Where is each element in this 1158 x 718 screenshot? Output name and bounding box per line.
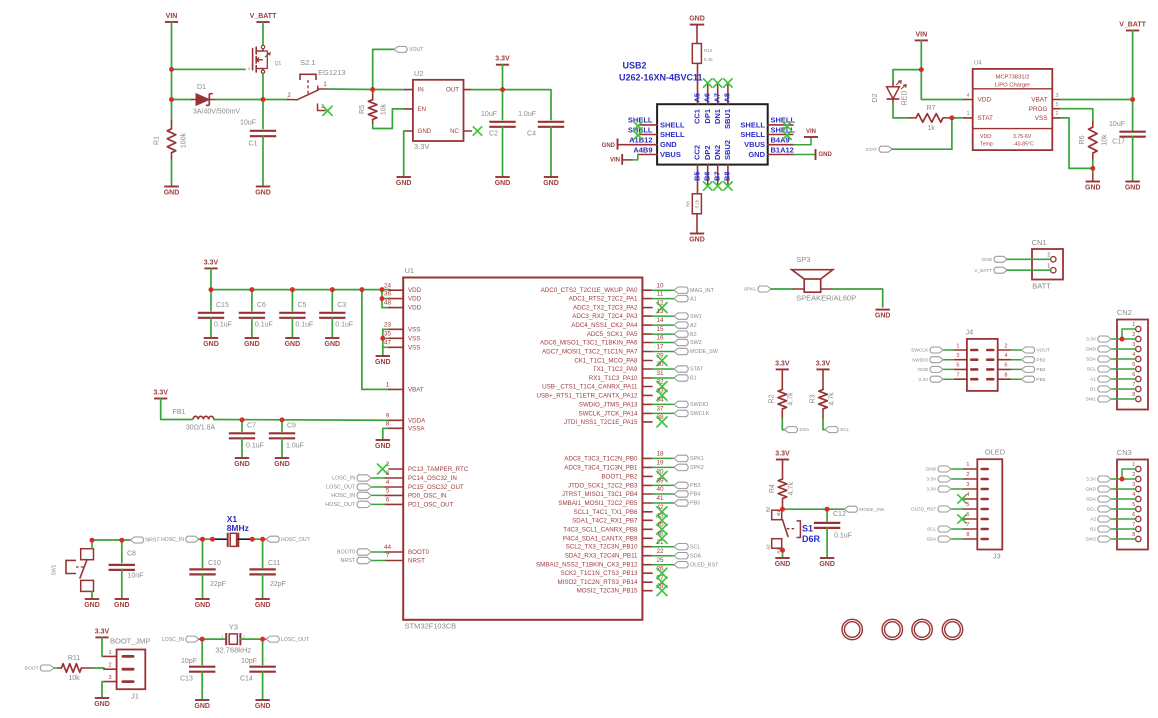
- svg-text:C4: C4: [527, 131, 536, 138]
- svg-text:VIN: VIN: [806, 129, 816, 135]
- net flag OLED_RST: [911, 506, 951, 513]
- power symbol VIN: [915, 31, 928, 40]
- svg-text:ADC9_T3C4_T1C3N_PB1: ADC9_T3C4_T1C3N_PB1: [564, 464, 638, 471]
- svg-text:VIN: VIN: [610, 157, 620, 163]
- wire: [262, 639, 264, 665]
- J3 pin 1: [963, 462, 989, 470]
- svg-text:PROG: PROG: [1029, 106, 1048, 113]
- svg-text:HOSC_IN: HOSC_IN: [331, 493, 355, 499]
- U1 right pin 31 RX1_T1C3_PA10: [589, 370, 664, 382]
- svg-text:SCL: SCL: [840, 427, 850, 433]
- svg-text:PC13_TAMPER_RTC: PC13_TAMPER_RTC: [408, 466, 469, 473]
- svg-text:A2: A2: [1090, 517, 1096, 523]
- wire: [821, 288, 832, 290]
- ground: [234, 458, 250, 468]
- USB2 bottom pin B8 SBU2: [723, 140, 732, 186]
- svg-text:STAT: STAT: [866, 147, 878, 153]
- svg-text:V_BATT: V_BATT: [1119, 22, 1146, 29]
- svg-text:GND: GND: [234, 461, 250, 468]
- U1 left pin 6 PD1_OSC_OUT: [385, 496, 454, 508]
- wire: [210, 290, 212, 311]
- svg-text:SWCLK: SWCLK: [911, 348, 929, 354]
- ground (side): [602, 138, 618, 149]
- svg-text:3: 3: [966, 482, 969, 488]
- capacitor C5: [279, 302, 313, 329]
- svg-text:1: 1: [1132, 322, 1135, 328]
- U1 right pin 40 JTRST_MISO1_T3C1_PB4: [562, 486, 664, 498]
- svg-text:SWDIO_JTMS_PA13: SWDIO_JTMS_PA13: [579, 401, 638, 408]
- svg-text:USB+_RTS1_T1ETR_CANTX_PA12: USB+_RTS1_T1ETR_CANTX_PA12: [536, 392, 638, 399]
- wire: [102, 682, 104, 698]
- net flag SPK1: [744, 286, 771, 293]
- wire: [371, 503, 384, 505]
- wire: [1011, 359, 1021, 361]
- CN3 pin 4: [1132, 492, 1141, 502]
- net flag SW1: [674, 313, 702, 320]
- wire: [199, 638, 225, 640]
- svg-text:CN2: CN2: [1117, 308, 1132, 317]
- wire: [794, 288, 805, 290]
- svg-text:VBUS: VBUS: [660, 150, 681, 159]
- wire VSS: [1061, 118, 1093, 168]
- svg-text:VDDA: VDDA: [408, 417, 426, 424]
- svg-text:GND: GND: [255, 189, 271, 196]
- node S2 junction: [370, 87, 375, 92]
- svg-text:VSS: VSS: [408, 344, 420, 351]
- wire: [696, 214, 698, 234]
- svg-text:SHELL: SHELL: [660, 120, 685, 129]
- CN3 pin 2: [1132, 472, 1141, 482]
- wire: [794, 154, 815, 156]
- ground: [375, 440, 391, 450]
- resistor R8: [686, 194, 702, 214]
- svg-text:ADC3_RX2_T2C4_PA3: ADC3_RX2_T2C4_PA3: [572, 313, 638, 320]
- wire: [1111, 488, 1135, 490]
- capacitor C9: [269, 422, 304, 449]
- svg-text:CK1_T1C1_MCO_PA8: CK1_T1C1_MCO_PA8: [574, 358, 638, 365]
- net flag A1: [1090, 376, 1111, 383]
- no-connect: [714, 182, 722, 190]
- svg-text:1.0uF: 1.0uF: [518, 111, 536, 118]
- power VIN (side): [610, 154, 632, 165]
- node: [1120, 477, 1125, 482]
- header J4: [965, 327, 997, 391]
- power symbol V_BATT: [250, 13, 277, 22]
- capacitor C12: [814, 511, 852, 540]
- svg-text:GND: GND: [819, 152, 833, 158]
- no-connect: [704, 79, 712, 87]
- speaker SP3: [792, 255, 857, 303]
- net flag 3.3V: [918, 376, 943, 383]
- capacitor C8: [109, 550, 144, 579]
- svg-text:U1: U1: [405, 266, 415, 275]
- ground: [819, 558, 835, 568]
- svg-text:0.1uF: 0.1uF: [246, 442, 264, 449]
- svg-text:OLED: OLED: [985, 448, 1006, 457]
- USB2 right pin B1A12 GND: [748, 145, 794, 159]
- U1 right pin 32 USB-_CTS1_T1C4_CANRX_PA11: [542, 379, 664, 391]
- wire: [1111, 528, 1135, 530]
- svg-text:0.1uF: 0.1uF: [295, 321, 313, 328]
- net flag SCL: [1087, 366, 1111, 373]
- ground (side): [816, 149, 833, 160]
- svg-text:J3: J3: [993, 551, 1001, 560]
- wire: [652, 484, 674, 486]
- net flag SDA: [1086, 496, 1111, 503]
- no-connect shell: [634, 122, 642, 130]
- wire: [199, 538, 212, 540]
- resistor R11: [58, 655, 92, 682]
- net flag A2: [674, 322, 697, 329]
- U1 left pin 3 PC14_OSC32_IN: [385, 470, 457, 482]
- svg-text:D6R: D6R: [802, 534, 821, 544]
- wire: [371, 494, 384, 496]
- net flag BOOT: [25, 665, 54, 672]
- wire: [1122, 329, 1135, 339]
- svg-text:PB5: PB5: [1036, 377, 1045, 383]
- wire: [1007, 258, 1050, 260]
- svg-text:ADC1_RTS2_T2C2_PA1: ADC1_RTS2_T2C2_PA1: [569, 296, 638, 303]
- svg-text:DN1: DN1: [713, 109, 722, 124]
- capacitor C17: [1109, 121, 1146, 146]
- svg-text:4: 4: [1132, 352, 1135, 358]
- svg-text:GND: GND: [875, 312, 891, 319]
- header J1 BOOT_JMP: [104, 636, 151, 700]
- wire: [331, 290, 333, 311]
- CN2 pin 3: [1132, 342, 1141, 352]
- svg-text:10pF: 10pF: [241, 658, 257, 665]
- capacitor C13: [180, 658, 215, 682]
- U1 left pin 7 NRST: [385, 553, 426, 565]
- svg-text:GND: GND: [375, 359, 391, 366]
- wire: [262, 136, 264, 186]
- capacitor C7: [229, 422, 264, 449]
- svg-text:47: 47: [384, 339, 392, 346]
- wire: [54, 667, 58, 669]
- svg-text:15: 15: [656, 326, 664, 333]
- svg-text:30: 30: [656, 361, 664, 368]
- wire: [652, 412, 674, 414]
- svg-text:GND: GND: [819, 561, 835, 568]
- wire: [383, 337, 390, 339]
- CN3 pin 6: [1132, 512, 1141, 522]
- svg-text:VOUT: VOUT: [409, 47, 424, 53]
- U1 left pin 24 VDD: [384, 282, 422, 294]
- wire: [251, 290, 253, 311]
- wire: [652, 368, 674, 370]
- svg-text:VSSA: VSSA: [408, 425, 425, 432]
- USB2 bottom pin B5 CC2: [692, 145, 701, 186]
- wire: [262, 539, 264, 567]
- net flag MODE_SW: [674, 348, 719, 355]
- svg-text:SCL1_T4C1_TX1_PB6: SCL1_T4C1_TX1_PB6: [574, 509, 639, 516]
- node 3.3V junction: [500, 87, 505, 92]
- ground: [244, 338, 260, 348]
- wire: [201, 672, 203, 700]
- svg-text:R4: R4: [769, 484, 776, 493]
- resistor R2 4.7k: [769, 369, 795, 419]
- wire: [241, 438, 243, 457]
- connector CN2 body: [1117, 308, 1148, 410]
- svg-text:3.3V: 3.3V: [153, 390, 168, 397]
- svg-text:LOSC_IN: LOSC_IN: [162, 637, 184, 643]
- no-connect: [657, 417, 667, 427]
- ground: [203, 338, 219, 348]
- ground: [84, 599, 100, 609]
- capacitor C1: [240, 119, 276, 147]
- svg-text:SWCLK_JTCK_PA14: SWCLK_JTCK_PA14: [578, 410, 638, 417]
- node VBAT junction: [1130, 97, 1135, 102]
- wire: [1011, 368, 1021, 370]
- svg-text:22pF: 22pF: [210, 581, 226, 588]
- svg-text:MISO2_T1C2N_RTS3_PB14: MISO2_T1C2N_RTS3_PB14: [557, 579, 638, 586]
- node: [380, 336, 385, 341]
- svg-text:JTDI_NSS1_T2C1E_PA15: JTDI_NSS1_T2C1E_PA15: [564, 419, 638, 426]
- wire: [893, 104, 910, 118]
- no-connect: [958, 495, 966, 503]
- net flag SCL: [674, 544, 701, 551]
- wire 3.3V bus: [211, 289, 390, 291]
- resistor R13: [692, 44, 713, 64]
- svg-text:Q1: Q1: [275, 61, 282, 67]
- USB2 right pin SHELL SHELL: [740, 116, 795, 130]
- U1 left pin 35 VSS: [384, 330, 420, 342]
- svg-text:10pF: 10pF: [181, 658, 197, 665]
- svg-text:A7: A7: [712, 93, 721, 103]
- svg-text:LOSC_OUT: LOSC_OUT: [281, 637, 310, 643]
- wire: [281, 438, 283, 457]
- wire: [1111, 378, 1135, 380]
- diode D1: [192, 84, 241, 116]
- svg-text:GND: GND: [114, 602, 130, 609]
- label U262-16XN-4BVC11: [619, 73, 703, 83]
- svg-text:SCL: SCL: [927, 527, 937, 533]
- wire: [652, 457, 674, 459]
- svg-text:A2: A2: [766, 544, 771, 550]
- svg-text:B1: B1: [1090, 387, 1096, 393]
- power symbol 3.3V: [775, 451, 790, 460]
- power symbol 3.3V: [495, 56, 510, 65]
- svg-text:GND: GND: [1085, 184, 1101, 191]
- LED D2: [872, 81, 909, 106]
- svg-text:1: 1: [1132, 462, 1135, 468]
- U1 left pin 4 PC15_OSC32_OUT: [385, 479, 464, 491]
- net flag HOSC_IN: [331, 492, 371, 499]
- wire: [1011, 378, 1021, 380]
- no-connect: [657, 390, 667, 400]
- svg-text:PB4: PB4: [1036, 367, 1045, 373]
- svg-text:1k: 1k: [927, 125, 935, 132]
- USB2 right pin SHELL SHELL: [740, 125, 795, 139]
- svg-text:5: 5: [1132, 502, 1135, 508]
- svg-text:GND: GND: [689, 237, 705, 244]
- svg-text:5: 5: [1055, 102, 1058, 108]
- ferrite bead FB1: [173, 409, 216, 431]
- svg-text:3.3V: 3.3V: [495, 56, 510, 63]
- svg-text:OLED_RST: OLED_RST: [911, 507, 936, 513]
- wire: [251, 318, 253, 338]
- net flag GND: [982, 256, 1008, 263]
- wire: [373, 49, 394, 89]
- net flag PB4: [1021, 366, 1045, 373]
- svg-text:C3: C3: [337, 302, 346, 309]
- wire: [1111, 478, 1135, 480]
- svg-text:4: 4: [967, 93, 970, 99]
- svg-text:4.7k: 4.7k: [828, 392, 835, 406]
- svg-text:BOOT: BOOT: [25, 666, 39, 672]
- svg-text:22pF: 22pF: [270, 581, 286, 588]
- U1 right pin 29 CK1_T1C1_MCO_PA8: [574, 353, 664, 365]
- ground: [875, 310, 891, 320]
- power symbol 3.3V: [95, 628, 110, 637]
- net flag NRST: [341, 557, 372, 564]
- svg-text:-40-85°C: -40-85°C: [1013, 142, 1034, 148]
- svg-text:3: 3: [1055, 93, 1058, 99]
- node STAT junction: [949, 115, 954, 120]
- svg-text:10uF: 10uF: [481, 111, 497, 118]
- U1 left pin 8 VSSA: [386, 420, 426, 432]
- net flag 3.3V: [1086, 336, 1111, 343]
- wire VBAT: [362, 290, 390, 390]
- J4 pins 5/6: [954, 363, 1011, 371]
- svg-text:DP1: DP1: [703, 109, 712, 124]
- svg-text:10: 10: [656, 282, 664, 289]
- svg-text:GND: GND: [274, 461, 290, 468]
- net flag SW2: [1086, 536, 1111, 543]
- wire: [921, 40, 964, 99]
- wire: [951, 478, 963, 480]
- svg-text:MAG_INT: MAG_INT: [690, 288, 715, 294]
- net flag 3.3V: [926, 486, 951, 493]
- node bus junction: [330, 287, 335, 292]
- net flag SDA: [784, 427, 810, 434]
- net flag SDA: [1086, 356, 1111, 363]
- no-connect: [704, 182, 712, 190]
- net flag B2: [1090, 526, 1111, 533]
- svg-text:VOUT: VOUT: [1036, 348, 1049, 354]
- wire: [652, 342, 674, 344]
- svg-text:R3: R3: [809, 394, 816, 403]
- CN2 pin 1: [1132, 322, 1141, 332]
- net flag LOSC_OUT: [266, 636, 310, 643]
- mounting hole: [842, 619, 862, 639]
- svg-text:GND: GND: [543, 180, 559, 187]
- svg-text:8: 8: [386, 420, 390, 427]
- U1 right pin 17 ADC7_MOSI1_T3C2_T1C1N_PA7: [542, 344, 664, 356]
- regulator U2: [405, 69, 472, 151]
- svg-text:IN: IN: [418, 87, 424, 94]
- wire: [1132, 31, 1134, 132]
- wire: [161, 399, 192, 420]
- svg-text:23: 23: [384, 321, 392, 328]
- svg-text:5.1k: 5.1k: [695, 199, 700, 208]
- svg-text:B1: B1: [776, 510, 781, 516]
- svg-text:EN: EN: [418, 106, 427, 113]
- svg-text:3.3V: 3.3V: [926, 487, 937, 493]
- svg-text:GND: GND: [602, 143, 616, 149]
- svg-text:SWDIO: SWDIO: [912, 357, 929, 363]
- node: [280, 417, 285, 422]
- svg-text:37: 37: [656, 405, 664, 412]
- svg-text:39: 39: [656, 477, 664, 484]
- U1 right pin 21 SCL2_TX3_T2C3N_PB10: [566, 539, 664, 551]
- ground: [255, 700, 271, 710]
- node Q1 source junction: [261, 97, 266, 102]
- wire: [171, 22, 173, 100]
- svg-text:3.3V: 3.3V: [775, 360, 790, 367]
- svg-text:2: 2: [108, 663, 111, 669]
- svg-text:STM32F103CB: STM32F103CB: [405, 621, 457, 630]
- wire: [1132, 137, 1134, 181]
- svg-text:P4C4_SDA1_CANTX_PB9: P4C4_SDA1_CANTX_PB9: [563, 535, 638, 542]
- ground: [94, 698, 110, 708]
- J3 pin 3: [963, 482, 989, 490]
- net flag PB5: [1021, 376, 1045, 383]
- wire: [327, 88, 373, 91]
- net flag LOSC_IN: [332, 475, 371, 482]
- CN3 pin 3: [1132, 482, 1141, 492]
- node bus junction: [209, 287, 214, 292]
- net flag HOSC_OUT: [266, 536, 311, 543]
- svg-text:LOSC_IN: LOSC_IN: [332, 476, 355, 482]
- svg-text:VBUS: VBUS: [744, 140, 765, 149]
- svg-text:ADC5_SCK1_PA5: ADC5_SCK1_PA5: [587, 331, 638, 338]
- no-connect: [657, 382, 667, 392]
- U1 left pin 23 VSS: [384, 321, 420, 333]
- svg-text:U2: U2: [414, 69, 424, 78]
- mounting hole: [882, 619, 902, 639]
- svg-text:OUT: OUT: [446, 87, 459, 94]
- USB2 top pin A8 SBU1: [723, 83, 732, 129]
- U1 left pin 2 PC13_TAMPER_RTC: [386, 461, 469, 473]
- svg-text:B2: B2: [690, 332, 697, 338]
- svg-text:3.75-6V: 3.75-6V: [1013, 134, 1032, 140]
- USB2 top pin A6 DP1: [702, 83, 711, 124]
- wire: [371, 477, 384, 479]
- svg-text:SWCLK: SWCLK: [690, 411, 710, 417]
- no-connect: [657, 568, 667, 578]
- svg-text:10k: 10k: [68, 675, 80, 682]
- U1 right pin 30 TX1_T1C2_PA9: [593, 361, 664, 373]
- power symbol V_BATT: [1119, 22, 1146, 31]
- svg-text:PB3: PB3: [1036, 357, 1045, 363]
- net flag OLED_RST: [674, 562, 719, 569]
- capacitor C2: [481, 111, 516, 138]
- wire R13 to GND: [696, 25, 698, 44]
- svg-text:A5: A5: [692, 93, 701, 103]
- U1 right pin 38 JTDI_NSS1_T2C1E_PA15: [564, 414, 664, 426]
- svg-text:VSS: VSS: [408, 326, 420, 333]
- svg-text:2: 2: [1004, 343, 1007, 349]
- wire: [383, 346, 390, 348]
- svg-text:SPEAKER/AL60P: SPEAKER/AL60P: [796, 294, 856, 303]
- svg-text:25: 25: [656, 557, 664, 564]
- node bus junction: [359, 287, 364, 292]
- wire 3.3V bus: [210, 268, 212, 289]
- CN2 pin 2: [1132, 332, 1141, 342]
- node: [1120, 337, 1125, 342]
- no-connect shell: [783, 131, 791, 139]
- U1 left pin 48 VDD: [384, 300, 422, 312]
- power symbol VIN: [165, 13, 178, 22]
- U1 right pin 39 JTDO_SCK1_T2C2_PB3: [568, 477, 664, 489]
- wire VDDA: [214, 419, 390, 422]
- USB2 bottom pin B7 DN2: [712, 145, 721, 186]
- ground: [285, 338, 301, 348]
- ground label: [689, 237, 705, 244]
- connector USB2 body: [657, 104, 768, 164]
- svg-text:GND: GND: [203, 341, 219, 348]
